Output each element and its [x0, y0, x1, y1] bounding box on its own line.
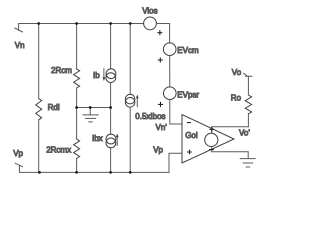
wire mid node to Ibx [110, 108, 112, 135]
op-amp minus input mark [187, 122, 190, 124]
wire Ib to mid node [110, 83, 112, 108]
junction mid rail at Ib [109, 106, 112, 109]
junction top rail at 2Rcm [75, 22, 78, 25]
svg-text:EVcm: EVcm [177, 46, 199, 55]
wire node Vo' [212, 126, 249, 128]
wire Ibx lower [110, 148, 112, 173]
wire dependent source to ground [212, 151, 249, 153]
svg-text:Vp: Vp [13, 149, 23, 158]
polarity - of dependent source [210, 149, 214, 151]
svg-text:2Rcmx: 2Rcmx [46, 146, 71, 155]
wire node Vp to op-amp [169, 153, 182, 172]
svg-text:0.5xIbos: 0.5xIbos [135, 112, 165, 121]
wire branch 0.5xIbos upper [129, 24, 131, 95]
terminal Vn [15, 24, 23, 33]
op-amp plus input mark [188, 150, 192, 154]
resistor Ro [247, 114, 249, 127]
terminal Vo [244, 73, 252, 76]
wire EV column upper [169, 24, 171, 44]
svg-text:Vo: Vo [232, 68, 242, 77]
polarity + of EVcm [158, 58, 162, 62]
svg-text:2Rcm: 2Rcm [51, 66, 72, 75]
junction bottom rail at Ibx [109, 171, 112, 174]
wire 0.5xIbos lower [129, 107, 131, 172]
source EVcm [163, 43, 176, 56]
svg-text:Gol: Gol [185, 131, 198, 140]
dependent source Gol output [205, 127, 218, 152]
junction top rail at 0.5xIbos [129, 22, 132, 25]
wire 2Rcmx lower [76, 159, 78, 173]
junction top rail at Rdi [37, 22, 40, 25]
resistor Rdi [36, 99, 42, 120]
wire mid node to 2Rcmx [76, 108, 78, 140]
wire top rail left [19, 23, 144, 25]
terminal Vp [15, 163, 23, 172]
svg-text:Rdi: Rdi [48, 103, 60, 112]
svg-text:Vn': Vn' [156, 123, 168, 132]
wire Ro to terminal Vo [247, 76, 249, 95]
svg-text:Vo': Vo' [239, 128, 250, 137]
junction mid rail at 2Rcm [75, 106, 78, 109]
current source Ib [103, 69, 116, 83]
svg-text:Ib: Ib [93, 71, 100, 80]
wire bottom rail [19, 171, 169, 173]
wire branch Rdi lower [38, 120, 40, 173]
resistor 2Rcm [74, 69, 80, 88]
current source 0.5xIbos [125, 94, 138, 107]
svg-text:Vp: Vp [153, 146, 163, 155]
resistor 2Rcmx [74, 139, 80, 159]
wire 2Rcm to mid node [76, 88, 78, 108]
wire branch Ib upper [110, 24, 112, 70]
junction bottom rail at 2Rcmx [75, 171, 78, 174]
polarity + of dependent source [210, 127, 214, 131]
wire branch Rdi upper [38, 24, 40, 99]
svg-text:Ibx: Ibx [92, 134, 103, 143]
svg-text:Vn: Vn [15, 41, 25, 50]
polarity + of Vios [158, 31, 162, 35]
svg-text:EVpsr: EVpsr [177, 91, 199, 100]
polarity + of EVpsr [158, 102, 162, 106]
svg-text:Ro: Ro [231, 94, 242, 103]
wire mid rail [77, 107, 111, 109]
wire EVpsr to node Vn' [170, 100, 182, 125]
wire top rail right [156, 23, 169, 25]
current source Ibx [106, 134, 119, 148]
junction top rail at Ib [109, 22, 112, 25]
junction bottom rail at 0.5xIbos [129, 171, 132, 174]
junction bottom rail at Rdi [38, 171, 41, 174]
wire EV column middle [169, 56, 171, 88]
source EVpsr [164, 87, 177, 100]
ground mid [83, 108, 99, 122]
ground right [240, 152, 255, 167]
wire branch 2Rcm upper [76, 24, 78, 69]
op-amp U1 Gol [182, 115, 234, 164]
source Vios [144, 17, 157, 30]
svg-text:Vios: Vios [142, 7, 157, 16]
junction mid rail at ground [89, 106, 92, 109]
